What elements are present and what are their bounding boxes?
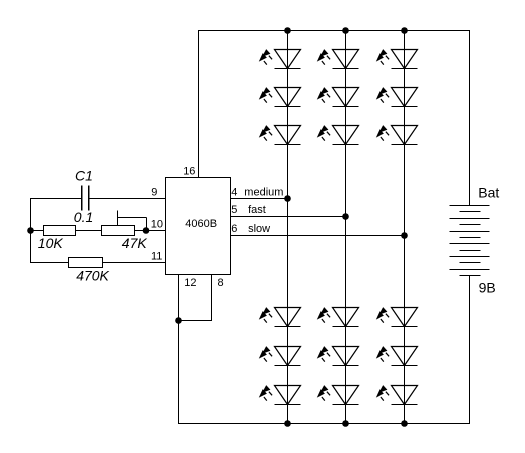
svg-text:slow: slow [248, 223, 270, 235]
LED top group col1 row3 [259, 125, 301, 144]
svg-text:4060B: 4060B [185, 218, 217, 230]
wire 47K to node [135, 230, 147, 232]
junction top rail col1 [284, 27, 291, 34]
svg-text:fast: fast [248, 204, 266, 216]
junction pin10 node [143, 227, 150, 234]
svg-text:9: 9 [151, 187, 157, 199]
LED top group col2 row1 [317, 49, 359, 68]
svg-text:5: 5 [231, 204, 237, 216]
junction medium tap col1 [284, 195, 291, 202]
wire pin8 to pin12 link [179, 320, 212, 322]
LED bottom group col1 row2 [259, 346, 301, 365]
svg-text:11: 11 [151, 251, 162, 263]
LED bottom group col3 row2 [376, 346, 418, 365]
wire pin5 fast tap [231, 216, 346, 218]
junction bottom rail col1 [284, 420, 291, 427]
wire LED column 2 [345, 31, 347, 424]
wire 10K to 47K [76, 230, 102, 232]
wire pin9 right segment from C1 [89, 198, 166, 200]
LED bottom group col3 row3 [376, 385, 418, 404]
battery Bat plates [450, 206, 490, 276]
svg-text:Bat: Bat [478, 184, 499, 200]
svg-text:470K: 470K [76, 268, 109, 284]
LED bottom group col2 row1 [317, 307, 359, 326]
svg-text:4: 4 [231, 187, 237, 199]
wire pin11 wire left of 470K [30, 262, 69, 264]
resistor R 470K body [69, 258, 103, 268]
wire pin6 slow tap [231, 235, 405, 237]
svg-text:16: 16 [183, 166, 195, 178]
wire pin10 segment [146, 230, 166, 232]
wire top positive rail [198, 30, 470, 32]
junction left RC node [27, 227, 34, 234]
svg-text:47K: 47K [122, 235, 148, 251]
svg-text:0.1: 0.1 [74, 209, 93, 225]
LED top group col2 row3 [317, 125, 359, 144]
wire battery bottom lead [469, 276, 471, 424]
junction bottom rail col3 [401, 420, 408, 427]
LED top group col1 row2 [259, 87, 301, 106]
wire pin16 to top rail [198, 31, 200, 178]
wire LED column 3 [404, 31, 406, 424]
svg-text:C1: C1 [75, 167, 93, 183]
capacitor C1 plates [82, 186, 89, 211]
junction top rail col2 [342, 27, 349, 34]
svg-text:12: 12 [184, 277, 196, 289]
LED bottom group col2 row2 [317, 346, 359, 365]
LED bottom group col1 row3 [259, 385, 301, 404]
LED top group col1 row1 [259, 49, 301, 68]
svg-text:10K: 10K [38, 235, 64, 251]
wire pin9 left segment to C1 [30, 198, 82, 200]
junction bottom rail col2 [342, 420, 349, 427]
wire pin4 medium tap [231, 198, 288, 200]
svg-text:medium: medium [244, 187, 283, 199]
wire left node vertical [30, 199, 32, 263]
wire pin11 wire right of 470K [103, 262, 166, 264]
LED bottom group col2 row3 [317, 385, 359, 404]
svg-text:9B: 9B [479, 280, 496, 296]
LED top group col3 row2 [376, 87, 418, 106]
svg-text:8: 8 [218, 277, 224, 289]
wire left node to R 10K [30, 230, 44, 232]
LED bottom group col1 row1 [259, 307, 301, 326]
wire bottom return rail [178, 423, 470, 425]
LED bottom group col3 row1 [376, 307, 418, 326]
trimmer 47K wiper [118, 211, 147, 231]
svg-text:10: 10 [151, 218, 163, 230]
LED top group col3 row3 [376, 125, 418, 144]
LED top group col3 row1 [376, 49, 418, 68]
junction top rail col3 [401, 27, 408, 34]
trimmer R 47K body [102, 226, 135, 236]
wire pin8 down [211, 275, 213, 322]
LED top group col2 row2 [317, 87, 359, 106]
junction pin12 pin8 node [175, 317, 182, 324]
junction slow tap col3 [401, 232, 408, 239]
wire pin12 down to bottom rail [178, 275, 180, 424]
junction fast tap col2 [342, 213, 349, 220]
IC U1 4060B body [166, 178, 231, 275]
wire LED column 1 [287, 31, 289, 424]
resistor R 10K body [44, 226, 76, 236]
wire battery top lead [469, 31, 471, 206]
svg-text:6: 6 [231, 223, 237, 235]
